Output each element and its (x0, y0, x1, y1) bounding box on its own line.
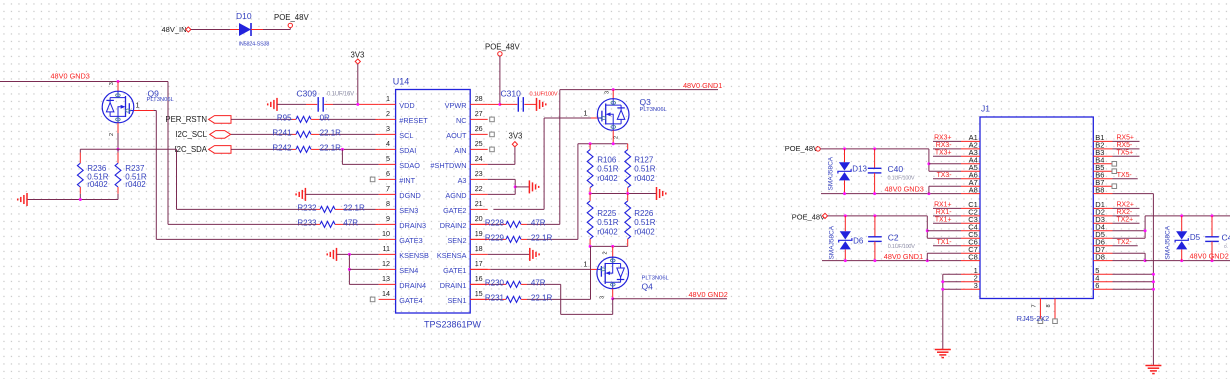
svg-text:D10: D10 (236, 11, 252, 21)
svg-text:TX1-: TX1- (937, 239, 952, 246)
svg-text:22.1R: 22.1R (531, 293, 553, 302)
svg-text:D8: D8 (1095, 252, 1105, 261)
svg-text:25: 25 (475, 139, 483, 148)
svg-text:I2C_SDA: I2C_SDA (174, 145, 207, 154)
svg-text:AOUT: AOUT (446, 131, 467, 140)
svg-text:21: 21 (475, 199, 483, 208)
svg-text:19: 19 (475, 229, 483, 238)
svg-text:DRAIN3: DRAIN3 (399, 221, 426, 230)
svg-text:SDAO: SDAO (399, 161, 420, 170)
svg-text:SDAI: SDAI (399, 146, 416, 155)
svg-text:C309: C309 (297, 89, 318, 99)
svg-text:C4: C4 (1222, 233, 1230, 243)
svg-text:8: 8 (1046, 304, 1052, 307)
svg-text:R233: R233 (297, 218, 317, 227)
svg-text:27: 27 (475, 109, 483, 118)
svg-text:12: 12 (382, 259, 390, 268)
svg-text:SEN4: SEN4 (399, 266, 418, 275)
svg-text:Q4: Q4 (642, 282, 654, 292)
svg-text:26: 26 (475, 124, 483, 133)
svg-text:1: 1 (583, 109, 587, 118)
svg-text:Q3: Q3 (640, 97, 652, 107)
svg-text:2: 2 (386, 109, 390, 118)
svg-text:RX3-: RX3- (936, 142, 952, 149)
svg-text:6: 6 (386, 169, 390, 178)
svg-text:3: 3 (604, 91, 610, 94)
svg-text:C40: C40 (888, 164, 904, 174)
svg-text:C8: C8 (968, 252, 978, 261)
svg-text:3: 3 (974, 281, 978, 290)
svg-text:GATE3: GATE3 (399, 236, 422, 245)
svg-text:D13: D13 (852, 165, 867, 174)
svg-text:I2C_SCL: I2C_SCL (175, 130, 207, 139)
svg-text:VPWR: VPWR (445, 101, 467, 110)
svg-text:#INT: #INT (399, 176, 415, 185)
svg-text:r0402: r0402 (87, 180, 108, 189)
svg-text:B8: B8 (1095, 185, 1104, 194)
svg-text:POE_48V: POE_48V (792, 213, 825, 222)
svg-text:4: 4 (386, 139, 390, 148)
svg-text:R106: R106 (597, 156, 617, 165)
svg-text:C310: C310 (501, 89, 522, 99)
svg-text:3V3: 3V3 (351, 51, 365, 60)
svg-text:AIN: AIN (454, 146, 466, 155)
svg-text:r0402: r0402 (634, 174, 655, 183)
svg-text:#SHTDWN: #SHTDWN (430, 161, 466, 170)
svg-text:TX1+: TX1+ (935, 217, 952, 224)
svg-text:D6: D6 (853, 237, 864, 246)
svg-text:R127: R127 (634, 156, 654, 165)
svg-text:DRAIN4: DRAIN4 (399, 281, 426, 290)
svg-text:SMAJ58CA: SMAJ58CA (828, 225, 835, 259)
svg-text:22: 22 (475, 184, 483, 193)
svg-text:PLT3N06L: PLT3N06L (147, 97, 175, 103)
svg-text:IN5824-SS38: IN5824-SS38 (239, 41, 270, 47)
svg-text:RJ45-2X2: RJ45-2X2 (1017, 314, 1049, 323)
svg-text:TX3-: TX3- (937, 172, 952, 179)
svg-text:R226: R226 (634, 209, 654, 218)
svg-text:1: 1 (583, 260, 587, 269)
svg-text:D5: D5 (1190, 233, 1201, 242)
svg-text:3: 3 (600, 296, 606, 299)
svg-text:PLT3N06L: PLT3N06L (640, 107, 668, 113)
svg-text:48V0 GND3: 48V0 GND3 (51, 72, 90, 81)
svg-text:15: 15 (475, 289, 483, 298)
svg-text:16: 16 (475, 274, 483, 283)
svg-text:GATE4: GATE4 (399, 296, 422, 305)
svg-text:3: 3 (386, 124, 390, 133)
svg-text:SMAJ58CA: SMAJ58CA (828, 156, 835, 190)
svg-text:47R: 47R (531, 218, 546, 227)
svg-text:2: 2 (109, 133, 115, 136)
svg-text:48V0 GND1: 48V0 GND1 (683, 81, 722, 90)
svg-text:RX1-: RX1- (936, 209, 952, 216)
svg-text:48V0 GND2: 48V0 GND2 (689, 290, 728, 299)
svg-text:0R: 0R (320, 113, 330, 122)
svg-text:A3: A3 (458, 176, 467, 185)
svg-text:0.: 0. (1224, 244, 1228, 250)
svg-text:0.1UF/16V: 0.1UF/16V (327, 91, 354, 97)
svg-text:GATE2: GATE2 (443, 206, 466, 215)
svg-text:0.51R: 0.51R (634, 218, 656, 227)
svg-text:DGND: DGND (399, 191, 421, 200)
svg-text:48V0 GND1: 48V0 GND1 (884, 252, 923, 261)
svg-text:8: 8 (386, 199, 390, 208)
svg-text:GATE1: GATE1 (443, 266, 466, 275)
svg-text:POE_48V: POE_48V (785, 144, 818, 153)
svg-text:SMAJ58CA: SMAJ58CA (1165, 225, 1172, 259)
svg-text:TX3+: TX3+ (935, 150, 952, 157)
svg-text:17: 17 (475, 259, 483, 268)
svg-text:RX2-: RX2- (1117, 209, 1133, 216)
svg-text:TPS23861PW: TPS23861PW (424, 320, 482, 330)
svg-text:0.51R: 0.51R (634, 165, 656, 174)
svg-text:22.1R: 22.1R (320, 128, 342, 137)
svg-text:2: 2 (614, 136, 620, 139)
svg-text:PER_RSTN: PER_RSTN (165, 115, 207, 124)
svg-text:R230: R230 (485, 278, 505, 287)
svg-text:RX2+: RX2+ (1117, 202, 1134, 209)
svg-text:R229: R229 (485, 233, 505, 242)
svg-text:23: 23 (475, 169, 483, 178)
svg-text:U14: U14 (393, 77, 410, 87)
svg-text:KSENSB: KSENSB (399, 251, 429, 260)
svg-text:J1: J1 (981, 104, 990, 114)
svg-text:22.1R: 22.1R (343, 203, 365, 212)
svg-text:47R: 47R (531, 278, 546, 287)
svg-text:3: 3 (109, 82, 115, 85)
svg-text:1: 1 (136, 101, 140, 110)
svg-text:5: 5 (386, 154, 390, 163)
svg-text:R241: R241 (272, 128, 292, 137)
svg-text:R242: R242 (272, 143, 292, 152)
svg-text:TX2+: TX2+ (1117, 217, 1134, 224)
svg-text:14: 14 (382, 289, 390, 298)
svg-text:11: 11 (383, 244, 390, 253)
svg-text:C2: C2 (888, 233, 899, 243)
svg-text:0.1UF/100V: 0.1UF/100V (888, 244, 915, 250)
svg-text:48V0 GND3: 48V0 GND3 (885, 184, 924, 193)
svg-text:0.1UF/100V: 0.1UF/100V (530, 91, 558, 97)
svg-text:10: 10 (382, 229, 390, 238)
svg-text:2: 2 (603, 251, 609, 254)
svg-text:R225: R225 (597, 209, 617, 218)
svg-text:SEN2: SEN2 (447, 236, 466, 245)
svg-text:TX5-: TX5- (1117, 172, 1132, 179)
svg-text:7: 7 (1031, 304, 1037, 307)
svg-text:#RESET: #RESET (399, 116, 428, 125)
svg-text:0.51R: 0.51R (597, 218, 619, 227)
svg-text:7: 7 (386, 184, 390, 193)
svg-text:NC: NC (456, 116, 467, 125)
svg-text:9: 9 (386, 214, 390, 223)
svg-text:TX2-: TX2- (1117, 239, 1132, 246)
svg-text:24: 24 (475, 154, 483, 163)
svg-text:SEN3: SEN3 (399, 206, 418, 215)
svg-text:POE_48V: POE_48V (485, 42, 520, 51)
svg-text:0.51R: 0.51R (597, 165, 619, 174)
svg-text:A8: A8 (969, 185, 978, 194)
svg-text:R228: R228 (485, 218, 505, 227)
svg-text:R231: R231 (485, 293, 505, 302)
svg-text:r0402: r0402 (597, 227, 618, 236)
svg-text:AGND: AGND (445, 191, 466, 200)
svg-text:RX3+: RX3+ (934, 135, 951, 142)
svg-text:22.1R: 22.1R (531, 233, 553, 242)
svg-text:SEN1: SEN1 (447, 296, 466, 305)
svg-text:28: 28 (475, 94, 483, 103)
svg-text:RX5-: RX5- (1117, 142, 1133, 149)
svg-text:13: 13 (382, 274, 390, 283)
svg-text:R232: R232 (297, 203, 317, 212)
svg-text:1: 1 (386, 94, 390, 103)
svg-text:TX5+: TX5+ (1117, 150, 1134, 157)
svg-text:18: 18 (475, 244, 483, 253)
svg-text:RX5+: RX5+ (1117, 135, 1134, 142)
svg-text:KSENSA: KSENSA (437, 251, 467, 260)
svg-text:0.1UF/100V: 0.1UF/100V (888, 175, 915, 181)
svg-text:DRAIN2: DRAIN2 (440, 221, 467, 230)
svg-text:48V0 GND2: 48V0 GND2 (1190, 251, 1229, 260)
svg-text:POE_48V: POE_48V (274, 13, 309, 22)
svg-text:r0402: r0402 (597, 174, 618, 183)
svg-text:RX1+: RX1+ (934, 202, 951, 209)
svg-text:3V3: 3V3 (509, 132, 523, 141)
svg-text:20: 20 (475, 214, 483, 223)
svg-text:r0402: r0402 (125, 180, 146, 189)
svg-text:r0402: r0402 (634, 227, 655, 236)
svg-text:47R: 47R (343, 218, 358, 227)
svg-text:DRAIN1: DRAIN1 (440, 281, 467, 290)
svg-text:6: 6 (1095, 281, 1099, 290)
svg-text:R95: R95 (277, 113, 292, 122)
svg-text:SCL: SCL (399, 131, 413, 140)
svg-text:VDD: VDD (399, 101, 414, 110)
svg-text:22.1R: 22.1R (320, 143, 342, 152)
svg-text:48V_IN: 48V_IN (162, 25, 187, 34)
